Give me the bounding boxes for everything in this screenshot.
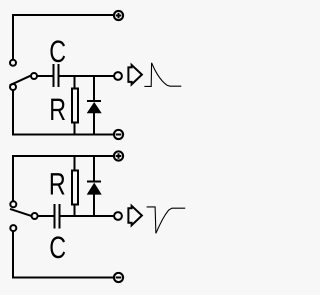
resistor R2 top lead [74, 156, 76, 171]
output node circle (top circuit) [114, 72, 122, 80]
terminal - (bottom circuit) [114, 273, 123, 282]
capacitor C2 [55, 204, 60, 228]
resistor R1 body [72, 89, 78, 123]
svg-text:C: C [49, 230, 66, 265]
wire top-left corner to switch throw A (bottom circuit) [12, 155, 14, 201]
wire bottom rail (top circuit) [12, 134, 113, 136]
diode D1 triangle [87, 102, 102, 113]
output block arrow (bottom circuit) [128, 206, 142, 226]
wire switch pole B to capacitor C2 [38, 215, 54, 217]
switch S2 throw C [10, 225, 16, 231]
output node circle (bottom circuit) [114, 212, 122, 220]
switch S1 throw A [10, 60, 16, 66]
wire switch pole B to capacitor C1 [38, 75, 54, 77]
terminal + (bottom circuit) [114, 151, 123, 160]
svg-text:C: C [49, 34, 66, 69]
diode D1 anode wire from output node [93, 76, 95, 100]
output waveform negative spike (bottom circuit) [147, 207, 186, 233]
wire bottom rail (bottom circuit) [12, 277, 113, 279]
terminal + (top circuit) [114, 11, 123, 20]
wire capacitor C2 to output node [61, 215, 114, 217]
diode D2 triangle [87, 183, 102, 195]
diode D1 wire to bottom rail [93, 113, 95, 135]
switch S1 throw C [10, 84, 16, 90]
terminal - (top circuit) [114, 130, 123, 139]
capacitor C1 [54, 64, 59, 87]
switch S2 throw A [10, 201, 16, 207]
wire top rail (bottom circuit) [12, 155, 113, 157]
resistor R2 bottom lead [74, 205, 76, 218]
diode D2 cathode bar [87, 181, 101, 183]
wire switch throw C down to bottom rail [12, 91, 14, 136]
switch S2 blade [10, 209, 31, 216]
wire top rail (top circuit) [12, 14, 113, 16]
svg-text:R: R [49, 92, 66, 127]
wire capacitor C1 to output node [60, 75, 114, 77]
svg-text:R: R [49, 167, 66, 202]
switch S2 pole B [32, 213, 38, 219]
resistor R1 bottom lead [74, 123, 76, 136]
wire top-left corner to switch throw A [12, 14, 14, 60]
diode D2 wire from top rail [93, 156, 95, 181]
output block arrow (top circuit) [128, 65, 142, 85]
resistor R2 body [72, 171, 78, 205]
output waveform positive spike (top circuit) [144, 63, 181, 87]
switch S1 blade [10, 76, 31, 86]
diode D1 cathode bar [87, 100, 101, 102]
wire switch throw C down to bottom rail (bottom circuit) [12, 232, 14, 278]
resistor R1 top lead [74, 76, 76, 89]
diode D2 wire to output node [93, 195, 95, 217]
switch S1 pole B [31, 73, 37, 79]
